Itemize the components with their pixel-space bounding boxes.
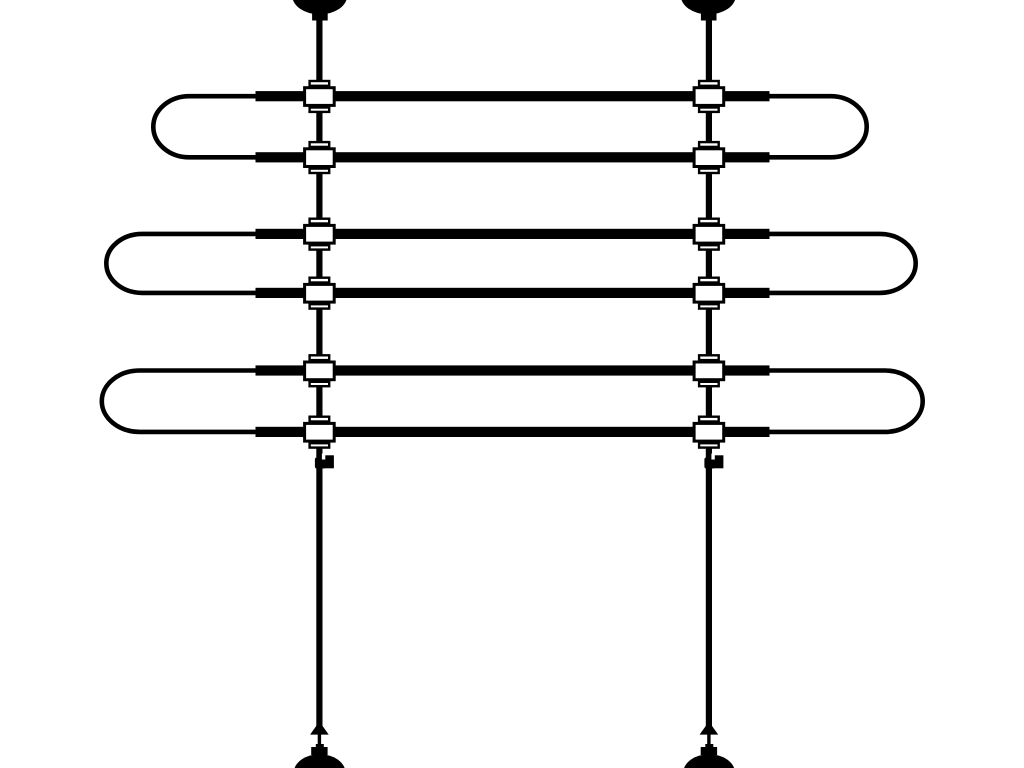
foot block <box>701 747 717 755</box>
foot dome <box>294 754 346 768</box>
clamp L5 <box>305 355 335 386</box>
tube loop pair 2 (middle stadium tube) <box>106 234 915 293</box>
left pole <box>316 10 322 726</box>
clamp R5 <box>694 355 724 386</box>
foot nub <box>316 744 324 749</box>
clamp R4 <box>694 278 724 309</box>
clamp L6 <box>305 417 335 448</box>
clamp R1 <box>694 81 724 112</box>
thick bar row 3 <box>256 229 770 239</box>
right pole <box>706 10 712 726</box>
tube loop pair 3 (bottom stadium tube) <box>102 371 923 432</box>
right pole bottom foot <box>683 722 735 768</box>
tube loop pair 1 (top stadium tube) <box>153 96 866 157</box>
thick bar row 4 <box>256 288 770 298</box>
right pole top ball neck <box>701 12 717 21</box>
clamp R2 <box>694 142 724 173</box>
clamp L3 <box>305 219 335 250</box>
clamp L2 <box>305 142 335 173</box>
thick bar row 6 <box>256 427 770 437</box>
right pole top pressure ball <box>681 0 736 15</box>
clamp R6 <box>694 417 724 448</box>
thick bar row 5 <box>256 365 770 375</box>
left pole bottom foot <box>294 722 346 768</box>
clamp L4 <box>305 278 335 309</box>
foot stem <box>707 733 710 748</box>
left pole top ball neck <box>312 12 328 21</box>
thick bar row 2 <box>256 152 770 162</box>
thick bar row 1 <box>256 91 770 101</box>
clamps on left pole <box>305 81 335 448</box>
foot block <box>311 747 327 755</box>
foot dome <box>683 754 735 768</box>
foot nub <box>705 744 713 749</box>
clamp L1 <box>305 81 335 112</box>
clamp R3 <box>694 219 724 250</box>
clamps on right pole <box>694 81 724 448</box>
left pole top pressure ball <box>292 0 347 15</box>
foot cone <box>700 722 719 735</box>
right pole adjuster knob <box>704 454 723 469</box>
left pole adjuster knob <box>315 454 334 469</box>
foot stem <box>318 733 321 748</box>
foot cone <box>310 722 329 735</box>
